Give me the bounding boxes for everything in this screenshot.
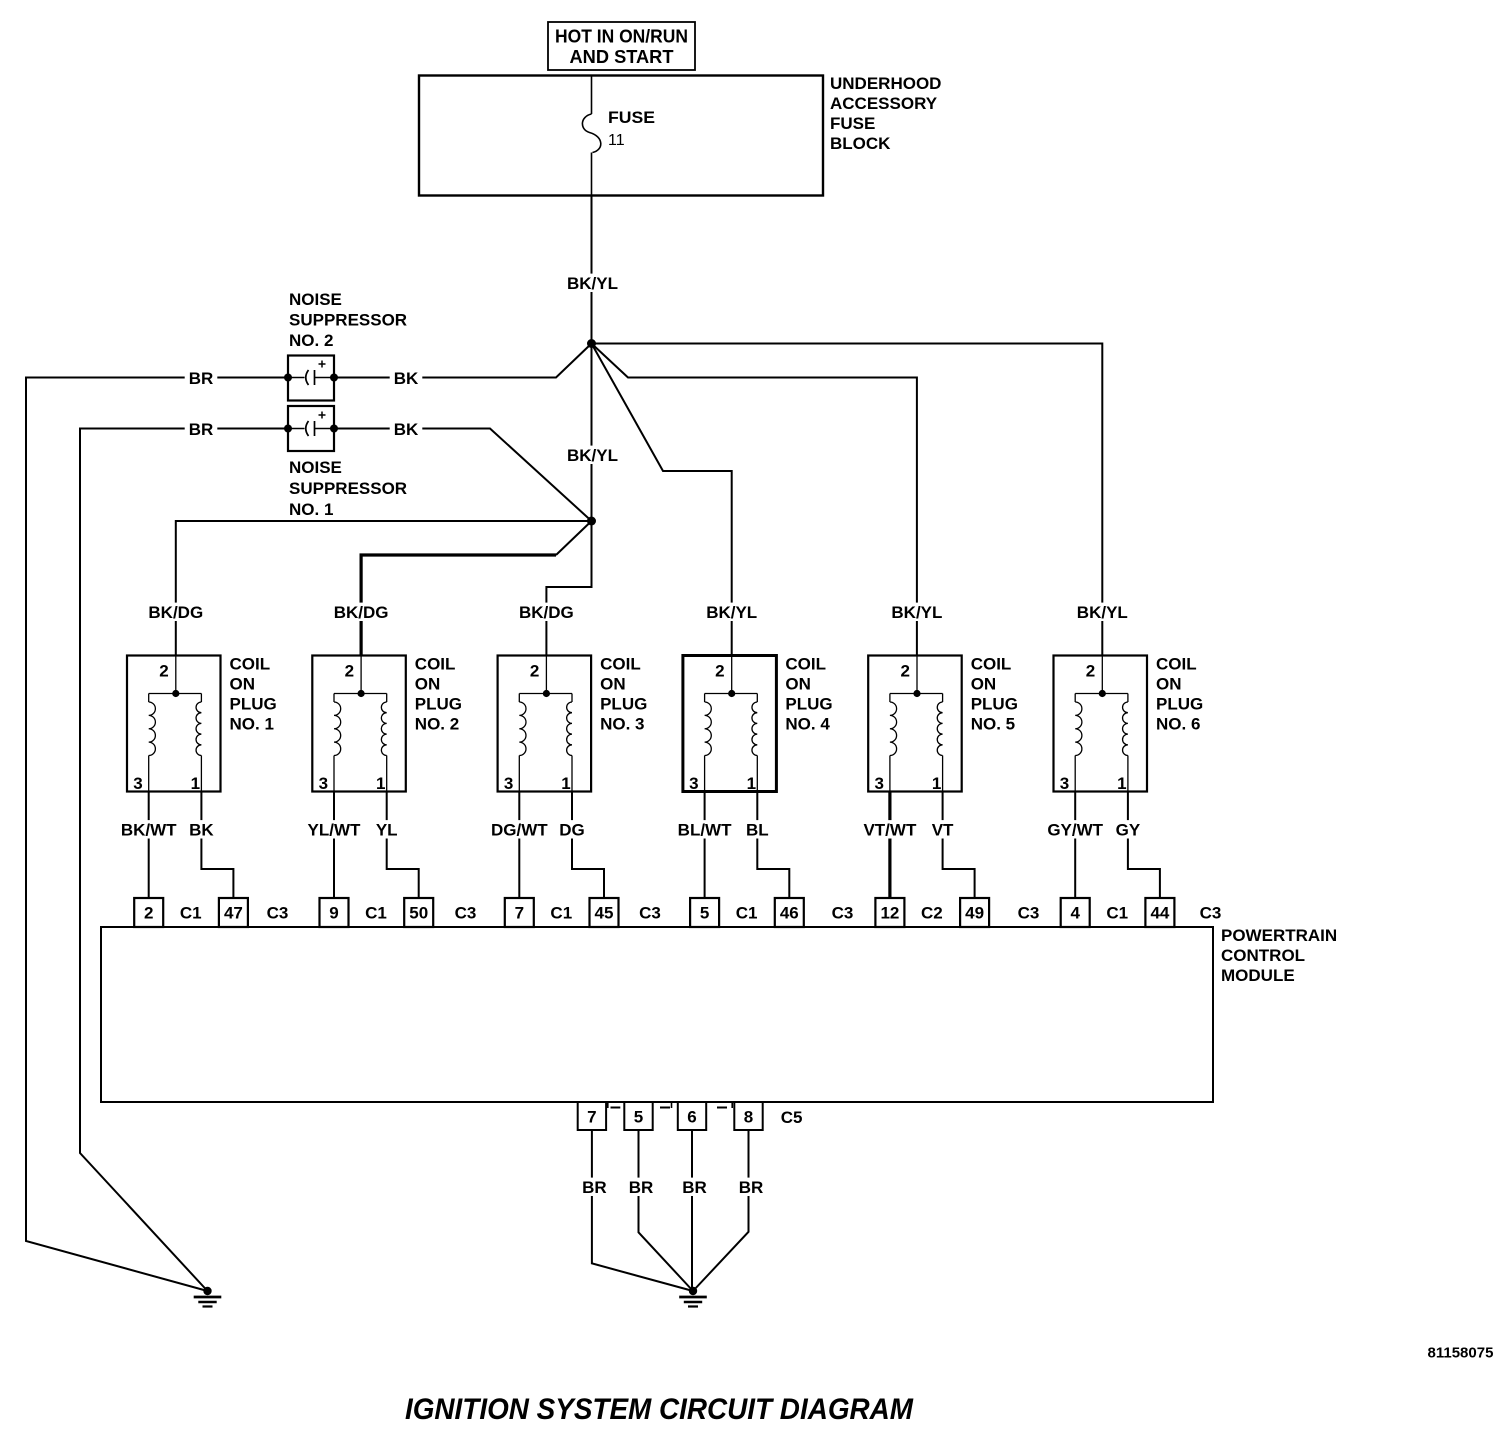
svg-text:3: 3	[874, 774, 883, 793]
svg-text:6: 6	[687, 1108, 696, 1127]
label: BK/DG feed coil 3	[515, 603, 578, 621]
PCM terminal pin 50 (C3)	[404, 898, 433, 927]
PCM terminal pin 8 (C5)	[734, 1102, 762, 1130]
svg-text:50: 50	[409, 904, 428, 923]
svg-text:ACCESSORY: ACCESSORY	[830, 94, 938, 113]
svg-text:NO. 1: NO. 1	[289, 500, 333, 519]
svg-text:BL/WT: BL/WT	[678, 821, 732, 840]
wire BK/YL junction A to coil 6 pin 2	[592, 344, 1103, 656]
PCM terminal pin 12 (C2)	[875, 898, 904, 927]
svg-text:3: 3	[1060, 774, 1069, 793]
svg-text:BLOCK: BLOCK	[830, 134, 891, 153]
svg-text:DG/WT: DG/WT	[491, 821, 548, 840]
wire BR pin7 to right ground	[592, 1130, 693, 1291]
wire BK suppressor2 to junction A	[334, 344, 592, 378]
PCM terminal pin 4 (C1)	[1061, 898, 1090, 927]
coil on plug no. 4 (U4)	[683, 656, 777, 792]
svg-text:4: 4	[1070, 904, 1080, 923]
coil on plug no. 1 (U1)	[127, 656, 221, 792]
label: BK/YL feed coil 6	[1073, 603, 1132, 621]
PCM terminal pin 5 (C1)	[690, 898, 719, 927]
PCM terminal pin 46 (C3)	[775, 898, 804, 927]
wire BR pin8 to right ground	[693, 1130, 749, 1291]
svg-text:COIL: COIL	[230, 655, 271, 674]
svg-text:9: 9	[329, 904, 338, 923]
label: GY	[1112, 820, 1145, 838]
svg-text:1: 1	[1117, 774, 1126, 793]
svg-text:NO. 6: NO. 6	[1156, 715, 1200, 734]
svg-text:1: 1	[932, 774, 941, 793]
svg-text:VT: VT	[932, 821, 954, 840]
label: BR (pin 6)	[678, 1178, 711, 1196]
svg-text:BK/WT: BK/WT	[121, 821, 177, 840]
wire BR suppressor1 to left ground	[80, 429, 288, 1292]
svg-text:C3: C3	[1200, 904, 1222, 923]
label: BK/WT	[117, 820, 181, 838]
svg-text:5: 5	[634, 1108, 643, 1127]
svg-text:COIL: COIL	[785, 655, 826, 674]
ground G2 (right)	[689, 1287, 697, 1295]
label: BR (pin 7)	[578, 1178, 611, 1196]
svg-text:2: 2	[530, 662, 539, 681]
svg-text:BK/YL: BK/YL	[1077, 603, 1128, 622]
svg-text:FUSE: FUSE	[830, 114, 875, 133]
label: DG/WT	[487, 820, 552, 838]
svg-text:BR: BR	[189, 420, 214, 439]
svg-text:MODULE: MODULE	[1221, 966, 1295, 985]
svg-text:47: 47	[224, 904, 243, 923]
PCM terminal pin 6 (C5)	[678, 1102, 706, 1130]
label: BR (pin 8)	[735, 1178, 768, 1196]
svg-text:COIL: COIL	[415, 655, 456, 674]
wire BL/WT coil 4 pin3 to PCM	[704, 792, 706, 899]
svg-text:C5: C5	[781, 1108, 803, 1127]
svg-text:COIL: COIL	[1156, 655, 1197, 674]
svg-text:12: 12	[880, 904, 899, 923]
wire VT/WT coil 5 pin3 to PCM	[888, 792, 891, 899]
svg-text:GY: GY	[1116, 821, 1141, 840]
label: BR (suppressor 2)	[185, 369, 218, 387]
svg-text:BK/YL: BK/YL	[706, 603, 757, 622]
node B+: HOT IN ON/RUN AND START supply tag	[548, 22, 695, 70]
underhood accessory fuse block	[419, 76, 823, 196]
label: VT	[928, 820, 958, 838]
svg-text:BK/DG: BK/DG	[334, 603, 389, 622]
svg-text:2: 2	[345, 662, 354, 681]
PCM terminal pin 7 (C5)	[578, 1102, 606, 1130]
svg-text:UNDERHOOD: UNDERHOOD	[830, 74, 941, 93]
svg-text:46: 46	[780, 904, 799, 923]
label: BK/YL feed coil 4	[702, 603, 761, 621]
label: YL/WT	[304, 820, 365, 838]
svg-text:ON: ON	[971, 675, 997, 694]
svg-text:8: 8	[744, 1108, 753, 1127]
wire VT coil 5 pin1 to PCM	[943, 792, 975, 899]
wire BK/YL junction A to coil 4 pin 2	[592, 344, 732, 656]
PCM terminal pin 44 (C3)	[1145, 898, 1174, 927]
svg-text:3: 3	[504, 774, 513, 793]
label: BK/DG feed coil 1	[144, 603, 207, 621]
svg-text:1: 1	[747, 774, 756, 793]
svg-text:C1: C1	[550, 904, 572, 923]
coil on plug no. 5 (U5)	[868, 656, 962, 792]
svg-text:PLUG: PLUG	[971, 695, 1018, 714]
svg-text:PLUG: PLUG	[415, 695, 462, 714]
svg-text:49: 49	[965, 904, 984, 923]
svg-text:BR: BR	[739, 1178, 764, 1197]
label: YL	[372, 820, 402, 838]
wire BK/YL junction A to junction B	[591, 344, 593, 522]
label: VT/WT	[860, 820, 921, 838]
label: BL	[742, 820, 773, 838]
svg-text:NO. 5: NO. 5	[971, 715, 1015, 734]
coil on plug no. 3 (U3)	[498, 656, 591, 792]
svg-text:SUPPRESSOR: SUPPRESSOR	[289, 311, 407, 330]
svg-text:BK/YL: BK/YL	[891, 603, 942, 622]
fuse F11 element	[582, 114, 600, 153]
svg-text:45: 45	[595, 904, 614, 923]
svg-text:YL: YL	[376, 821, 398, 840]
svg-text:11: 11	[608, 132, 625, 149]
wire DG coil 3 pin1 to PCM	[572, 792, 604, 899]
label: BK/YL feed coil 5	[887, 603, 946, 621]
wire DG/WT coil 3 pin3 to PCM	[518, 792, 520, 899]
label: BK (suppressor 2)	[390, 369, 423, 387]
PCM terminal pin 47 (C3)	[219, 898, 248, 927]
svg-text:3: 3	[689, 774, 698, 793]
svg-text:NO. 1: NO. 1	[230, 715, 274, 734]
PCM terminal pin 7 (C1)	[505, 898, 534, 927]
svg-text:ON: ON	[230, 675, 256, 694]
label: BK (suppressor 1)	[390, 420, 423, 438]
svg-text:BK: BK	[189, 821, 214, 840]
svg-text:BR: BR	[629, 1178, 654, 1197]
svg-text:NOISE: NOISE	[289, 458, 342, 477]
PCM terminal pin 2 (C1)	[134, 898, 163, 927]
svg-text:CONTROL: CONTROL	[1221, 946, 1305, 965]
svg-text:2: 2	[159, 662, 168, 681]
svg-text:C2: C2	[921, 904, 943, 923]
svg-text:BK/YL: BK/YL	[567, 274, 618, 293]
svg-text:HOT IN ON/RUN: HOT IN ON/RUN	[555, 26, 688, 47]
svg-text:NO. 4: NO. 4	[785, 715, 830, 734]
svg-text:YL/WT: YL/WT	[308, 821, 361, 840]
svg-text:5: 5	[700, 904, 709, 923]
label: BK/DG feed coil 2	[330, 603, 393, 621]
svg-text:ON: ON	[785, 675, 811, 694]
svg-text:C3: C3	[267, 904, 289, 923]
svg-text:BR: BR	[682, 1178, 707, 1197]
PCM terminal pin 5 (C5)	[624, 1102, 652, 1130]
svg-text:SUPPRESSOR: SUPPRESSOR	[289, 479, 407, 498]
svg-text:PLUG: PLUG	[600, 695, 647, 714]
svg-text:ON: ON	[1156, 675, 1182, 694]
svg-text:C1: C1	[736, 904, 758, 923]
label: BR (pin 5)	[625, 1178, 658, 1196]
label: BK/YL (mid)	[563, 446, 622, 464]
svg-text:2: 2	[144, 904, 153, 923]
wire BR suppressor2 to left ground	[26, 378, 288, 1292]
svg-text:1: 1	[191, 774, 200, 793]
wire BK/WT coil 1 pin3 to PCM	[148, 792, 150, 899]
svg-text:NO. 2: NO. 2	[289, 331, 333, 350]
svg-text:ON: ON	[600, 675, 626, 694]
svg-text:1: 1	[561, 774, 570, 793]
svg-text:2: 2	[1086, 662, 1095, 681]
svg-text:VT/WT: VT/WT	[863, 821, 916, 840]
coil on plug no. 2 (U2)	[312, 656, 406, 792]
label: GY/WT	[1043, 820, 1107, 838]
wire BK/YL junction A to coil 5 pin 2	[592, 344, 917, 656]
svg-text:C3: C3	[639, 904, 661, 923]
label: BL/WT	[674, 820, 736, 838]
svg-text:PLUG: PLUG	[1156, 695, 1203, 714]
wire BK/YL fuse to top junction	[591, 196, 593, 344]
wire YL coil 2 pin1 to PCM	[387, 792, 419, 899]
fuse F11 upper lead	[591, 76, 593, 115]
svg-text:PLUG: PLUG	[230, 695, 277, 714]
svg-text:AND START: AND START	[570, 46, 675, 67]
PCM terminal pin 9 (C1)	[320, 898, 349, 927]
svg-text:NO. 3: NO. 3	[600, 715, 644, 734]
label: BK/YL (upper)	[563, 274, 622, 292]
svg-text:1: 1	[376, 774, 385, 793]
PCM terminal pin 45 (C3)	[590, 898, 619, 927]
svg-text:GY/WT: GY/WT	[1047, 821, 1103, 840]
label: BK	[185, 820, 218, 838]
wire YL/WT coil 2 pin3 to PCM	[333, 792, 335, 899]
wire BK/DG junction B to coil 2 pin 2	[556, 521, 592, 555]
PCM terminal pin 49 (C3)	[960, 898, 989, 927]
wire BK/DG junction B to coil 3 pin 2	[546, 521, 591, 656]
label: BR (suppressor 1)	[185, 420, 218, 438]
svg-text:81158075: 81158075	[1428, 1345, 1494, 1362]
ground G1 (left)	[203, 1287, 211, 1295]
svg-text:7: 7	[515, 904, 524, 923]
capacitor: noise suppressor no. 2	[288, 356, 334, 401]
label: DG	[555, 820, 589, 838]
svg-text:3: 3	[319, 774, 328, 793]
svg-text:3: 3	[133, 774, 142, 793]
svg-text:C3: C3	[832, 904, 854, 923]
dashed pin separators (C5 connector)	[607, 1102, 609, 1108]
svg-text:BK: BK	[394, 420, 419, 439]
svg-text:BL: BL	[746, 821, 769, 840]
svg-text:BR: BR	[582, 1178, 607, 1197]
svg-text:NOISE: NOISE	[289, 290, 342, 309]
svg-text:IGNITION SYSTEM CIRCUIT DIAGRA: IGNITION SYSTEM CIRCUIT DIAGRAM	[405, 1393, 914, 1426]
svg-text:DG: DG	[559, 821, 585, 840]
svg-text:ON: ON	[415, 675, 441, 694]
svg-text:BK/YL: BK/YL	[567, 446, 618, 465]
wire BL coil 4 pin1 to PCM	[757, 792, 789, 899]
svg-text:7: 7	[587, 1108, 596, 1127]
wire BK suppressor1 to junction B	[334, 429, 592, 522]
wire BK/DG junction B to coil 1 pin 2	[176, 521, 592, 656]
svg-text:C1: C1	[365, 904, 387, 923]
svg-text:FUSE: FUSE	[608, 108, 655, 127]
fuse F11 lower lead	[591, 153, 593, 196]
wire BR pin6 to right ground	[691, 1130, 693, 1291]
svg-text:POWERTRAIN: POWERTRAIN	[1221, 926, 1337, 945]
wire BK coil 1 pin1 to PCM	[201, 792, 233, 899]
wire BR pin5 to right ground	[639, 1130, 694, 1291]
wire GY coil 6 pin1 to PCM	[1128, 792, 1160, 899]
svg-text:BK/DG: BK/DG	[148, 603, 203, 622]
svg-text:C1: C1	[180, 904, 202, 923]
svg-text:C3: C3	[1018, 904, 1040, 923]
svg-text:2: 2	[715, 662, 724, 681]
coil on plug no. 6 (U6)	[1054, 656, 1148, 792]
svg-text:44: 44	[1150, 904, 1169, 923]
powertrain control module (PCM)	[101, 927, 1213, 1102]
svg-text:2: 2	[900, 662, 909, 681]
capacitor: noise suppressor no. 1	[288, 406, 334, 451]
junction node A (BK/YL splice upper)	[587, 339, 596, 348]
svg-text:BK/DG: BK/DG	[519, 603, 574, 622]
junction node B (BK/DG splice lower)	[587, 517, 596, 526]
svg-text:COIL: COIL	[600, 655, 641, 674]
svg-text:BK: BK	[394, 369, 419, 388]
svg-text:COIL: COIL	[971, 655, 1012, 674]
svg-text:C1: C1	[1106, 904, 1128, 923]
svg-text:BR: BR	[189, 369, 214, 388]
svg-text:PLUG: PLUG	[785, 695, 832, 714]
svg-text:C3: C3	[455, 904, 477, 923]
wire GY/WT coil 6 pin3 to PCM	[1074, 792, 1076, 899]
svg-text:NO. 2: NO. 2	[415, 715, 459, 734]
